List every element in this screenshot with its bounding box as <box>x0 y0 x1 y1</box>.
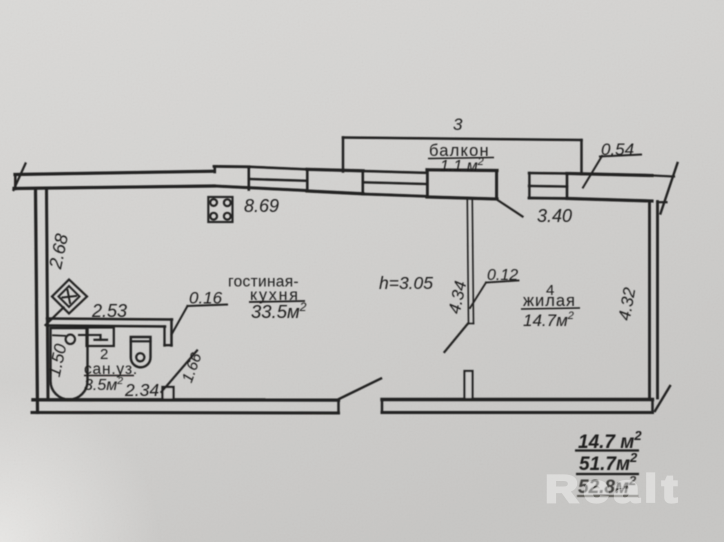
svg-text:жилая: жилая <box>523 292 576 310</box>
svg-text:8.69: 8.69 <box>244 196 279 216</box>
svg-text:2.53: 2.53 <box>91 301 127 321</box>
svg-text:0.12: 0.12 <box>487 267 518 284</box>
svg-text:14.7м2: 14.7м2 <box>523 310 574 330</box>
svg-text:3.40: 3.40 <box>537 206 572 226</box>
svg-text:0.54: 0.54 <box>601 140 634 159</box>
svg-text:h=3.05: h=3.05 <box>379 273 433 293</box>
svg-text:Realt: Realt <box>545 468 682 511</box>
svg-text:2.34: 2.34 <box>124 380 159 400</box>
svg-text:3: 3 <box>453 115 463 134</box>
svg-text:1.1 м2: 1.1 м2 <box>440 156 484 175</box>
svg-text:0.16: 0.16 <box>189 289 223 308</box>
svg-text:33.5м2: 33.5м2 <box>251 300 307 322</box>
